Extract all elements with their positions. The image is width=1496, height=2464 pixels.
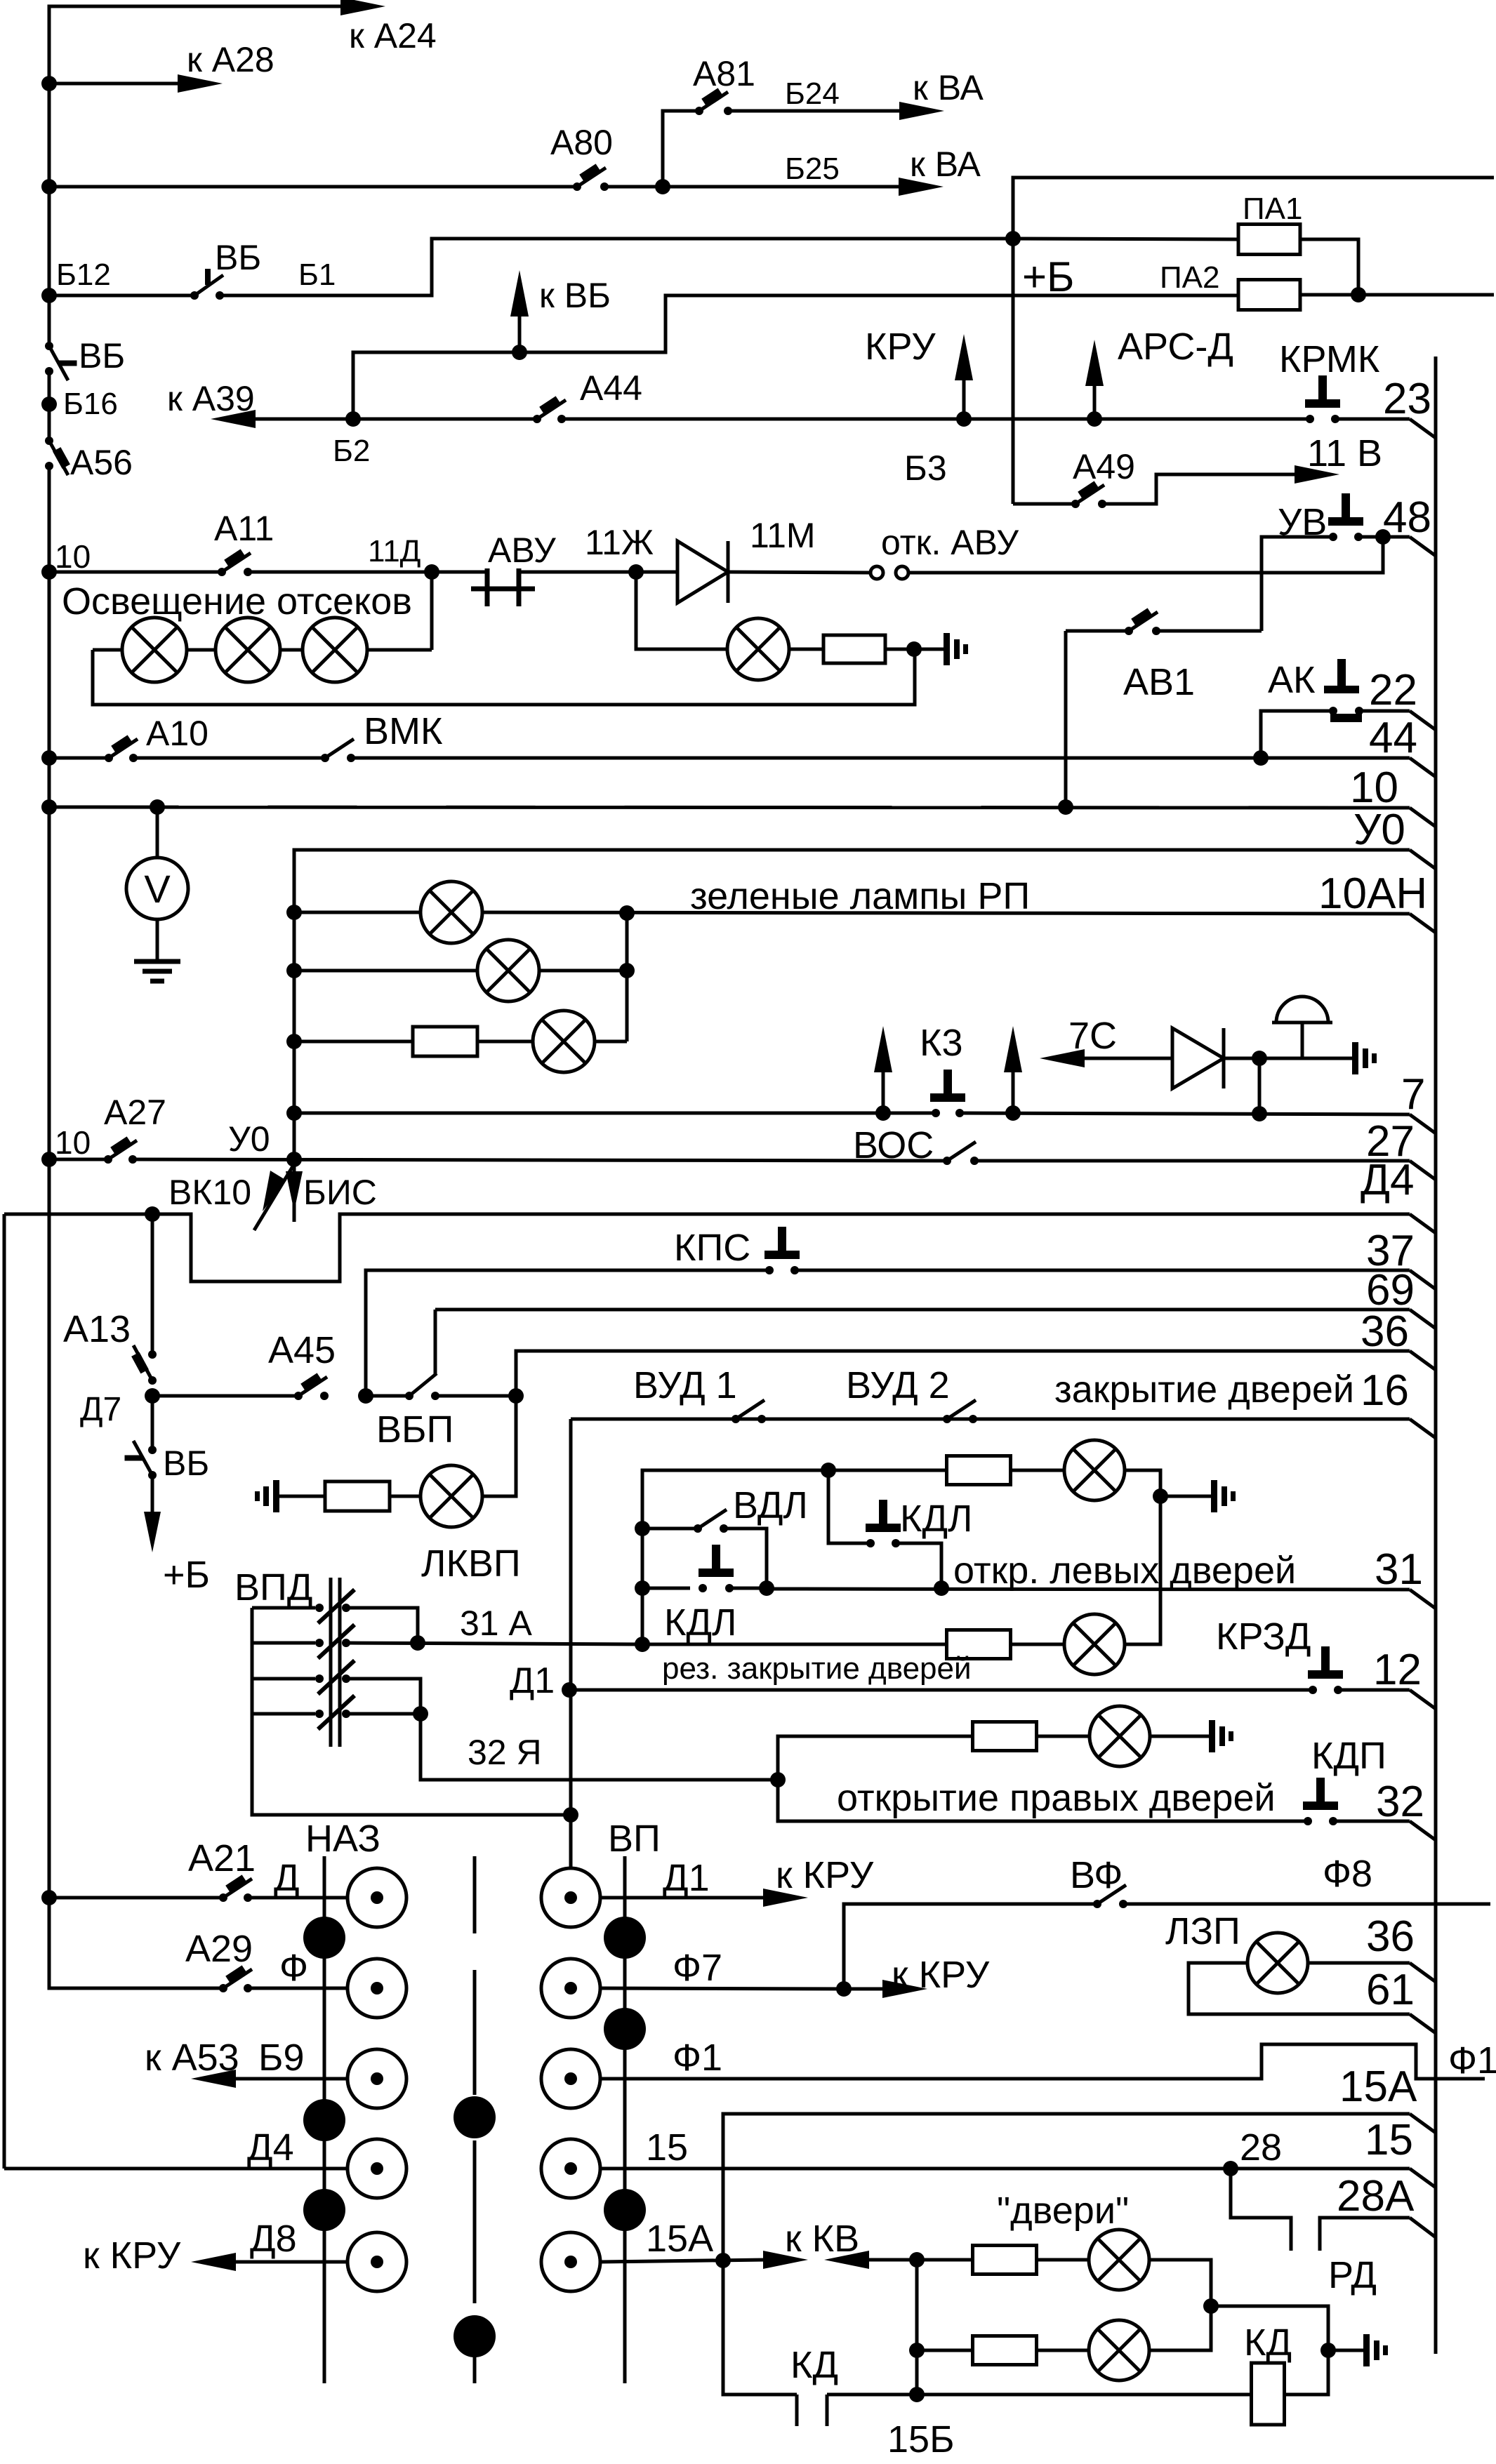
node lamp return junction [906,641,922,657]
svg-text:к А24: к А24 [349,16,437,55]
svg-text:10: 10 [1350,764,1398,812]
label Б1 [298,258,336,292]
label 15А (terminal) [1339,2063,1417,2111]
arrow ВК10 [254,1166,293,1230]
svg-text:12: 12 [1373,1646,1422,1694]
label К3 [920,1022,963,1064]
wire АВУ to 11Ж [519,571,636,574]
svg-text:к КРУ: к КРУ [776,1854,874,1896]
svg-text:11Д: 11Д [368,534,421,568]
label Д [274,1857,300,1899]
svg-text:23: 23 [1383,375,1431,423]
label ЛКВП [421,1543,521,1585]
label к ВБ [539,276,611,315]
wire АВ1 drop [1064,631,1068,807]
ground earth (voltmeter) [134,961,180,981]
svg-text:ВДЛ: ВДЛ [733,1484,808,1526]
svg-text:А81: А81 [693,54,755,93]
node bell junction [1252,1051,1267,1066]
label к КРУ (Д1) [776,1854,874,1896]
label ПА1 [1243,192,1302,226]
svg-text:к ВБ: к ВБ [539,276,611,315]
ground chassis (прав) [1209,1720,1233,1752]
wire lamp to resistor [789,648,824,651]
connector ВП contact 15А [541,2232,600,2291]
wire resistor to lamp (рез) [1011,1643,1064,1646]
node КД ground [1320,2343,1336,2358]
svg-text:Б1: Б1 [298,258,336,292]
button КРМК [1305,375,1340,423]
wire 15 row [600,2169,1436,2187]
svg-text:АВ1: АВ1 [1123,661,1195,703]
node А27 left [41,1152,57,1167]
wire left rail ВБ-Б16-А56 [48,371,51,441]
node 11Д [424,564,439,580]
label Д1 (connector) [663,1857,710,1899]
label 28А [1337,2172,1415,2220]
label БИС [303,1173,377,1212]
switch А27 [104,1140,137,1164]
svg-text:ВБ: ВБ [215,238,261,277]
label Д1 (mid) [510,1660,555,1701]
svg-text:АВУ: АВУ [488,531,556,570]
svg-text:А80: А80 [550,123,613,162]
lamp освещение 1 [122,618,187,682]
label Ф1 (connector) [673,2037,722,2079]
wire КДЛ1 branch [828,1470,871,1543]
label к А24 [349,16,437,55]
wire КД relay to ground [1285,2350,1328,2395]
svg-text:7С: 7С [1068,1015,1117,1057]
svg-text:А21: А21 [188,1837,256,1879]
contact ВПД row2 [252,1625,355,1658]
wire riser дв [915,2260,919,2395]
svg-text:рез. закрытие дверей: рез. закрытие дверей [662,1651,972,1686]
label АРС-Д [1118,326,1233,368]
label ВК10 [168,1173,251,1212]
switch А11 [218,553,252,576]
svg-text:закрытие дверей: закрытие дверей [1054,1368,1354,1411]
svg-text:ПА2: ПА2 [1160,260,1219,295]
wire resistor to ground [885,648,944,651]
svg-text:11М: 11М [750,516,816,555]
switch ВОС [943,1142,979,1165]
wire ВБП to junction36 [435,1394,516,1398]
node 28 [1223,2161,1238,2176]
svg-text:ВБ: ВБ [163,1444,209,1483]
label 31 (terminal) [1375,1545,1423,1594]
label Ф1 (edge) [1448,2039,1496,2082]
svg-text:11Ж: 11Ж [585,523,654,562]
svg-text:к ВА: к ВА [910,145,981,184]
wire А27 row [49,1158,108,1161]
button КДЛ (lower) [699,1545,734,1592]
wire двери row2 from riser [917,2349,973,2352]
wire Д4 bus [4,1214,1436,1281]
wire lamp chain [93,648,432,652]
svg-text:15: 15 [646,2126,688,2169]
svg-text:Д1: Д1 [663,1857,710,1899]
label 32 Я [468,1733,542,1772]
svg-text:ЛКВП: ЛКВП [421,1543,521,1585]
wire А49 to 11В arrow [1102,465,1339,504]
lamp освещение 3 [303,618,367,682]
switch ВБП [366,1373,439,1400]
label КРУ [865,326,936,368]
resistor откр правых [973,1722,1037,1751]
wire lamp1 to rail [1149,2260,1211,2306]
button КРЗД [1308,1646,1343,1694]
svg-text:7: 7 [1401,1070,1425,1119]
button УВ [1328,493,1363,541]
node КРУ arrow [956,411,972,427]
label 11Д [368,534,421,568]
connector НАЗ contact Д [347,1868,406,1927]
node АК branch [1253,750,1269,766]
node ПА2 junction [1351,287,1366,302]
wire КДЛ2 row [642,1587,690,1590]
wire А10-ВМК [133,757,325,760]
connector ВП rail [623,1856,627,2383]
contact отк. АВУ [871,566,908,579]
node КДЛ1 bus31 [934,1580,949,1596]
wire bus 37 riser [366,1270,769,1396]
switch А13 (vertical) [133,1345,157,1385]
label к КРУ (Д8) [83,2235,181,2277]
svg-text:откр. левых дверей: откр. левых дверей [953,1550,1296,1592]
node 15А riser [715,2253,731,2268]
label ВУД 2 [846,1364,950,1406]
wire КД contact to 15Б [827,2393,917,2397]
svg-text:15Б: 15Б [887,2418,955,2460]
connector НАЗ contact Д4 [347,2139,406,2198]
button КДЛ (upper) [866,1500,901,1547]
svg-text:А10: А10 [146,714,208,753]
svg-text:ВМК: ВМК [364,710,443,752]
wire 31А lamp row [642,1643,947,1646]
svg-text:32: 32 [1376,1778,1424,1826]
wire А11 to 11Д node [248,571,432,574]
wire bus 37 to terminal [795,1270,1436,1289]
svg-text:к КРУ: к КРУ [892,1954,990,1996]
label Б9 [258,2037,304,2079]
label ВБП [376,1409,454,1451]
label А44 [580,368,642,408]
wire resistor to lamp3 [477,1040,534,1044]
connector key НАЗ y2761 [303,1917,345,1959]
label ВП [608,1818,661,1860]
label КД (relay) [1244,2322,1292,2364]
wire А80 to junction [604,185,663,189]
wire resistor to lamp (прав) [1037,1735,1090,1738]
connector ВП contact Д1 [541,1868,600,1927]
svg-text:НАЗ: НАЗ [305,1818,380,1860]
svg-text:ВУД 1: ВУД 1 [633,1364,737,1406]
wire АК branch [1261,711,1333,758]
lamp 11М lamp [727,618,789,680]
wire КРМК to terminal 23 [1336,419,1436,438]
contact ВПД row3 [252,1660,355,1694]
label А49 [1073,447,1135,486]
label А45 [268,1329,336,1371]
switch ВФ [1093,1885,1127,1908]
wire resistor to lamp (закрытие) [1011,1469,1064,1472]
wire А44 to КРМК [562,418,1309,421]
node Б2 [345,411,361,427]
wire ПА2 to right edge [1300,293,1494,297]
node Б12 [41,288,57,303]
wire АК to terminal 22 [1359,711,1436,730]
connector link dashed [473,1856,477,2383]
node green row2 [286,963,302,978]
switch ВУД 2 [943,1400,977,1423]
diode 7С [1172,1028,1259,1088]
button К3 [930,1070,965,1117]
resistor ЛКВП [325,1481,390,1511]
svg-text:КПС: КПС [674,1227,750,1269]
svg-text:открытие правых дверей: открытие правых дверей [837,1777,1276,1819]
svg-text:У0: У0 [1353,806,1405,854]
svg-text:У0: У0 [228,1119,270,1159]
svg-text:А27: А27 [104,1093,166,1132]
lamp РП 2 [477,940,539,1001]
label НАЗ [305,1818,380,1860]
node А45-ВБП junction [358,1388,373,1404]
wire 11Д to АВУ [432,571,487,574]
label 61 (ЛЗП) [1366,1966,1415,2014]
node 10 (left rail) [41,564,57,580]
wire Б1 jog to +Б [220,239,1013,295]
ground chassis (11М) [944,633,968,665]
wire voltmeter drop [156,807,159,858]
arrow к КРУ (Ф7) [844,1980,927,1998]
label А81 [693,54,755,93]
svg-text:Д: Д [274,1857,300,1899]
node ВПД bottom x813 [563,1807,578,1823]
svg-text:44: 44 [1369,714,1417,762]
label 69 (terminal) [1366,1266,1415,1314]
svg-text:Ф7: Ф7 [673,1947,722,1989]
switch А56 on left rail [45,437,68,475]
lamp ЛЗП [1247,1933,1308,1993]
wire КДП to terminal 32 [1333,1821,1436,1840]
label Б12 [56,258,111,292]
node voltmeter branch [150,799,165,815]
svg-text:Б12: Б12 [56,258,111,292]
wire ВОС to terminal 27 [974,1161,1436,1180]
wire 15Б to КД relay [917,2393,1252,2397]
wire Д7 to А45 [152,1394,298,1398]
label к ВА (Б24) [913,68,984,107]
connector ВП contact Ф1 [541,2049,600,2108]
label АВУ [488,531,556,570]
svg-text:КДЛ: КДЛ [664,1601,736,1644]
wire bus 7 [294,1112,936,1115]
label ВМК [364,710,443,752]
svg-text:Ф8: Ф8 [1323,1853,1372,1895]
lamp двери 2 [1089,2320,1149,2380]
label 10 (terminal) [1350,764,1398,812]
svg-text:зеленые лампы РП: зеленые лампы РП [690,875,1030,917]
wire green row1 [294,911,421,914]
wire 15А terminal bus [723,2114,1436,2260]
bell [1272,997,1332,1058]
label Б25 [785,152,840,186]
node 11Ж [628,564,644,580]
arrow к А53 [191,2070,347,2088]
wire двери row1 [917,2258,973,2262]
label 10АН [1318,870,1427,918]
label КДП [1311,1735,1386,1777]
node green row3 [286,1034,302,1049]
svg-text:А29: А29 [185,1928,253,1970]
wire Б2 to А44 [353,418,537,421]
wire ВПД row3 link [346,1679,421,1714]
lamp закрытие дверей [1064,1440,1125,1500]
node откр левых junction1 [759,1580,774,1596]
label Ф7 [673,1947,722,1989]
connector НАЗ contact Ф [347,1959,406,2018]
connector key НАЗ y3021 [303,2099,345,2141]
diode 11М [636,541,875,603]
svg-text:28А: 28А [1337,2172,1415,2220]
button КДП [1303,1778,1338,1825]
svg-text:15А: 15А [646,2218,713,2260]
label Ф [279,1947,308,1989]
fuse ПА1 [1238,225,1300,255]
label 28 [1240,2126,1282,2169]
wire lamp to ground (прав) [1150,1735,1209,1738]
wire А49 row [1013,502,1075,506]
switch А10 [105,739,138,762]
label А29 [185,1928,253,1970]
label 11М [750,516,816,555]
label 44 [1369,714,1417,762]
label 7 (terminal) [1401,1070,1425,1119]
svg-text:V: V [144,867,171,911]
label А27 [104,1093,166,1132]
svg-text:А44: А44 [580,368,642,408]
node ВПД 31А junction [410,1635,425,1651]
svg-text:36: 36 [1366,1912,1415,1961]
label 12 (terminal) [1373,1646,1422,1694]
svg-text:Б24: Б24 [785,76,840,111]
switch ВМК [321,739,355,762]
wire 32Я bus [346,1714,778,1780]
svg-text:Ф1: Ф1 [1448,2039,1496,2082]
node left rail А80 bus [41,179,57,194]
wire ПА1 row [1013,239,1238,239]
wire КД ground stub [1328,2349,1363,2352]
wire ВМК to terminal 44 [351,758,1436,777]
wire 7С drop [1258,1058,1262,1114]
wire ВПД row1 link [346,1608,418,1643]
svg-text:Д8: Д8 [250,2218,297,2260]
label А80 [550,123,613,162]
label Б2 [333,434,370,468]
node У0 riser [286,1152,302,1167]
label 36 (ЛЗП) [1366,1912,1415,1961]
connector key ВП y2891 [604,2008,646,2050]
button АК (closed) [1324,659,1363,722]
label Б3 [904,448,947,488]
label двери [997,2190,1129,2232]
label У0 (А27 row) [228,1119,270,1159]
label ВУД 1 [633,1364,737,1406]
wire А21 to Д [248,1896,347,1900]
wire ВФ riser [844,1904,1097,1989]
label РД [1328,2254,1377,2296]
label АВ1 [1123,661,1195,703]
wire green row2 [294,969,478,973]
svg-text:к А39: к А39 [167,379,255,418]
contact ВПД row1 [252,1590,355,1623]
label А56 [70,443,133,482]
arrow АРС-Д [1085,340,1104,419]
arrow К3 left [874,1026,892,1113]
wire А80 bus [49,185,577,189]
svg-text:к А28: к А28 [187,40,274,79]
wire ЛЗП 36 bus [1308,1963,1436,1982]
node Д1 junction [562,1682,577,1698]
label Д4 (connector) [247,2126,294,2169]
switch ВБ on left rail [45,342,77,380]
wire bus 36 riser [516,1351,1436,1396]
label ВПД [234,1566,312,1609]
resistor закрытие [947,1456,1011,1485]
switch ВБ (Б12-Б1) [190,269,224,300]
wire Б12 to ВБ [49,294,194,298]
wire ground link [1211,2306,1328,2350]
svg-text:48: 48 [1383,493,1431,542]
node А13 branch [145,1206,160,1222]
wire КДП row [778,1780,1308,1821]
svg-text:Б16: Б16 [63,387,118,421]
wire 31А bus [346,1643,642,1644]
wire voltmeter to earth [156,919,159,961]
svg-text:ВУД 2: ВУД 2 [846,1364,950,1406]
label 7С [1068,1015,1117,1057]
svg-text:Освещение отсеков: Освещение отсеков [62,580,412,622]
wire 11Д lamps drop [430,572,434,650]
label Б16 [63,387,118,421]
label 15Б [887,2418,955,2460]
wire А13 vertical [151,1214,154,1354]
label к КВ [785,2218,859,2260]
svg-text:А45: А45 [268,1329,336,1371]
wire lamp3 to x893 [595,1040,627,1044]
node door ground junction [1153,1489,1168,1504]
resistor двери 2 [973,2336,1037,2365]
svg-text:к ВА: к ВА [913,68,984,107]
connector key ВП y2761 [604,1917,646,1959]
label +Б [1022,253,1074,300]
label открытие правых дверей [837,1777,1276,1819]
button КПС [764,1227,800,1274]
switch А45 [294,1377,329,1400]
label 31 А [460,1604,533,1643]
label А13 [63,1308,131,1350]
wire bus 31 [767,1589,1436,1609]
node КДЛ2 rail [635,1580,650,1596]
label КД (contact) [790,2344,838,2386]
label 10 (А11 row) [55,538,91,575]
label 23 [1383,375,1431,423]
wire door ground stub [1160,1495,1211,1498]
svg-text:КРУ: КРУ [865,326,936,368]
contact КД [797,2395,827,2426]
svg-text:ВБ: ВБ [79,336,125,375]
